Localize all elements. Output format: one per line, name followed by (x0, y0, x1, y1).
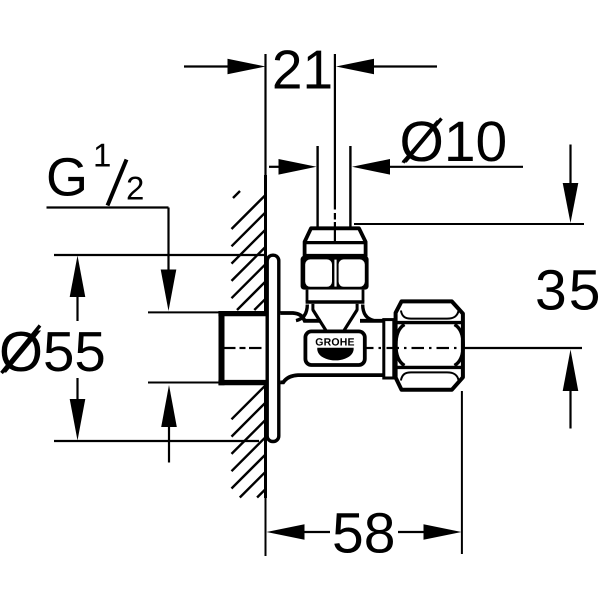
body bottom edge (280, 375, 384, 382)
copper pipe 10mm (318, 146, 351, 228)
label G 1/2 (46, 137, 169, 208)
dim 21 extension wall line top (264, 54, 266, 175)
svg-text:Ø55: Ø55 (0, 320, 106, 383)
body collar top edge (280, 313, 321, 321)
dim Ø55 (0, 255, 266, 441)
svg-text:G: G (46, 147, 88, 207)
svg-text:35: 35 (535, 259, 600, 323)
svg-text:Ø10: Ø10 (400, 110, 508, 174)
svg-text:21: 21 (272, 39, 333, 101)
dim G1/2 lines (148, 208, 220, 463)
nut barrel arcs (396, 325, 405, 366)
svg-text:1: 1 (93, 137, 111, 174)
wall face line (264, 175, 267, 498)
svg-text:GROHE: GROHE (315, 337, 355, 349)
vertical pipe centerline (334, 54, 336, 244)
neck (313, 304, 357, 311)
body top edge right (360, 319, 384, 323)
block centerline (224, 347, 262, 349)
svg-text:58: 58 (332, 502, 395, 566)
nut chamfer thin lines (401, 311, 459, 319)
dim 58 (267, 391, 462, 566)
dim Ø10 (269, 110, 523, 175)
upper sleeve (305, 228, 366, 256)
svg-text:2: 2 (126, 170, 144, 207)
lower ring (306, 290, 365, 302)
horizontal centerline (366, 347, 582, 349)
dim 21 (184, 39, 437, 101)
boss skirt slants (313, 310, 327, 332)
nut facet separators (397, 321, 463, 324)
sleeve divider (305, 241, 366, 244)
ring-to-body fillets (296, 305, 307, 321)
compression nut right (396, 301, 463, 389)
GROHE fan logo (317, 348, 353, 361)
GROHE label plate (305, 331, 364, 365)
wall hatching (232, 191, 266, 498)
wall line bottom extension (265, 498, 267, 556)
valve body (280, 313, 384, 382)
threaded inlet block (218, 311, 265, 385)
dim 35 (354, 145, 600, 429)
washer stem (384, 320, 394, 378)
escutcheon flange (267, 255, 279, 441)
upper compression nut (301, 256, 369, 290)
